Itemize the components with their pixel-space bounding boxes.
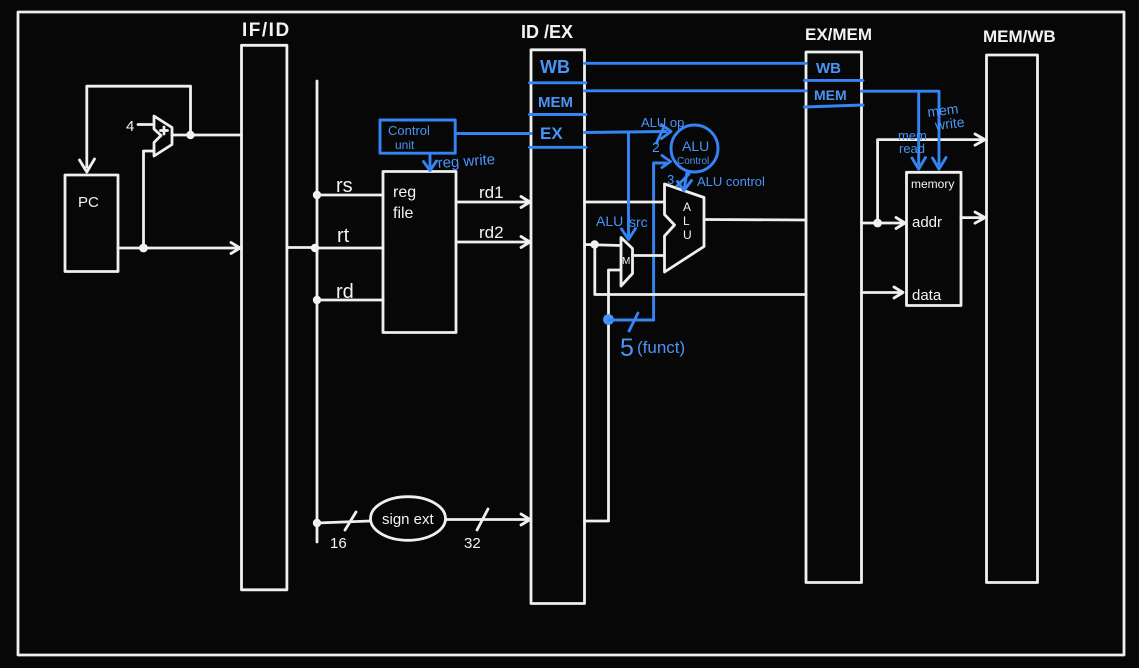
svg-text:IF/ID: IF/ID [242,20,291,41]
svg-text:32: 32 [464,535,481,552]
svg-text:MEM: MEM [538,94,573,111]
wire mux to ALU [633,254,665,257]
svg-text:ALU: ALU [682,138,709,154]
svg-text:2: 2 [652,139,660,155]
wire PC feedback loop [80,86,191,172]
svg-text:addr: addr [912,214,942,231]
label mem write [926,100,965,134]
EX/MEM MEM field [805,87,864,107]
svg-text:A: A [683,200,691,214]
pipeline register MEM/WB [987,55,1038,583]
sign extend [371,497,446,541]
control unit [380,120,455,153]
wire EX field to ALU control [585,125,672,139]
wire data to memory [862,287,904,298]
svg-text:ALU control: ALU control [697,174,765,189]
svg-text:rs: rs [336,175,353,197]
svg-text:3: 3 [667,172,674,187]
wire ALU result bypass to MEM/WB [878,134,985,223]
svg-text:WB: WB [540,57,570,77]
pipeline register EX/MEM [806,52,862,583]
node rs tap [313,175,383,199]
svg-text:L: L [683,214,690,228]
svg-text:PC: PC [78,194,99,211]
bit-width slash 16 [330,512,356,552]
wire memory out to MEM/WB [961,212,985,223]
svg-text:memory: memory [911,177,954,191]
wire rd2 to ID/EX [456,223,530,248]
wire funct tap horizontal [609,319,654,322]
mux M [621,238,633,287]
label ALU src [596,213,648,230]
memory unit [907,172,962,305]
wire mem write control [862,91,947,169]
wire mem read control [912,91,926,169]
svg-text:ID /EX: ID /EX [521,22,573,42]
svg-text:EX/MEM: EX/MEM [805,25,872,44]
ID/EX EX field [530,124,587,147]
node rt tap [311,225,383,252]
svg-text:U: U [683,228,692,242]
label mem read [898,128,927,156]
svg-text:ALU: ALU [596,213,623,229]
wire WB interconnect [585,62,807,65]
reg write arrow [424,153,437,170]
register file [383,172,456,333]
svg-text:file: file [393,205,414,222]
ID/EX WB field [530,57,587,83]
wire IF/ID out to bus [287,246,317,249]
svg-text:5: 5 [620,334,634,362]
wire rd1 to ID/EX [456,183,530,208]
wire ALU out to EX/MEM [704,218,806,221]
bit-width slash 2 [652,128,664,155]
ALU [665,184,705,272]
junction rd2 [590,240,598,248]
svg-text:(funct): (funct) [637,338,685,357]
node sign ext tap [313,519,321,527]
wire ALU result to memory addr [862,218,906,229]
svg-text:sign ext: sign ext [382,511,435,528]
wire adder second input [144,151,155,248]
pipeline register ID/EX [531,50,585,604]
svg-text:read: read [899,141,925,156]
node rd tap [313,281,383,304]
bit-width slash funct [629,313,638,331]
wire sign ext to ID/EX [446,514,530,525]
svg-text:rt: rt [337,225,350,247]
node funct tap [603,314,614,325]
ID/EX MEM field [530,94,587,115]
wire bus to sign ext [317,521,370,523]
svg-text:reg: reg [393,184,416,201]
wire funct up to ALU control [654,156,671,321]
svg-text:rd2: rd2 [479,223,504,242]
svg-text:unit: unit [395,138,415,152]
pipeline register IF/ID [242,45,287,590]
wire immediate ID/EX to mux [585,270,621,521]
wire rd2 ID/EX to mux [585,245,622,246]
label 5 (funct) [620,334,685,362]
svg-text:MEM: MEM [814,87,847,103]
wire adder out to IF/ID [172,134,242,137]
wire control unit to EX field [455,132,531,135]
bit-width slash 32 [464,509,488,552]
svg-text:ALU op: ALU op [641,115,684,130]
junction PC out [139,244,148,253]
wire rd1 ID/EX to ALU [585,201,665,204]
svg-text:Control: Control [677,156,709,167]
EX/MEM WB field [805,60,864,80]
wire MEM interconnect [585,89,807,92]
adder [154,116,172,156]
junction adder out [186,131,194,139]
PC register [65,175,118,272]
svg-text:WB: WB [816,60,841,77]
ALU src select arrow [622,134,636,240]
instruction bus [316,81,319,542]
svg-text:data: data [912,287,942,304]
svg-text:src: src [629,214,648,230]
wire 4 to adder [138,123,153,126]
svg-text:4: 4 [126,118,134,135]
junction ALU result [873,219,882,228]
svg-text:Control: Control [388,123,430,138]
svg-text:M: M [622,256,630,267]
svg-text:rd1: rd1 [479,183,504,202]
svg-text:16: 16 [330,535,347,552]
wire rd2 down to memory data [595,245,806,295]
wire PC out to IF/ID [118,243,240,254]
svg-text:rd: rd [336,281,354,303]
ALU control unit [671,125,718,172]
wire ALU control to ALU [667,172,765,191]
svg-text:MEM/WB: MEM/WB [983,27,1056,46]
svg-text:EX: EX [540,124,563,143]
